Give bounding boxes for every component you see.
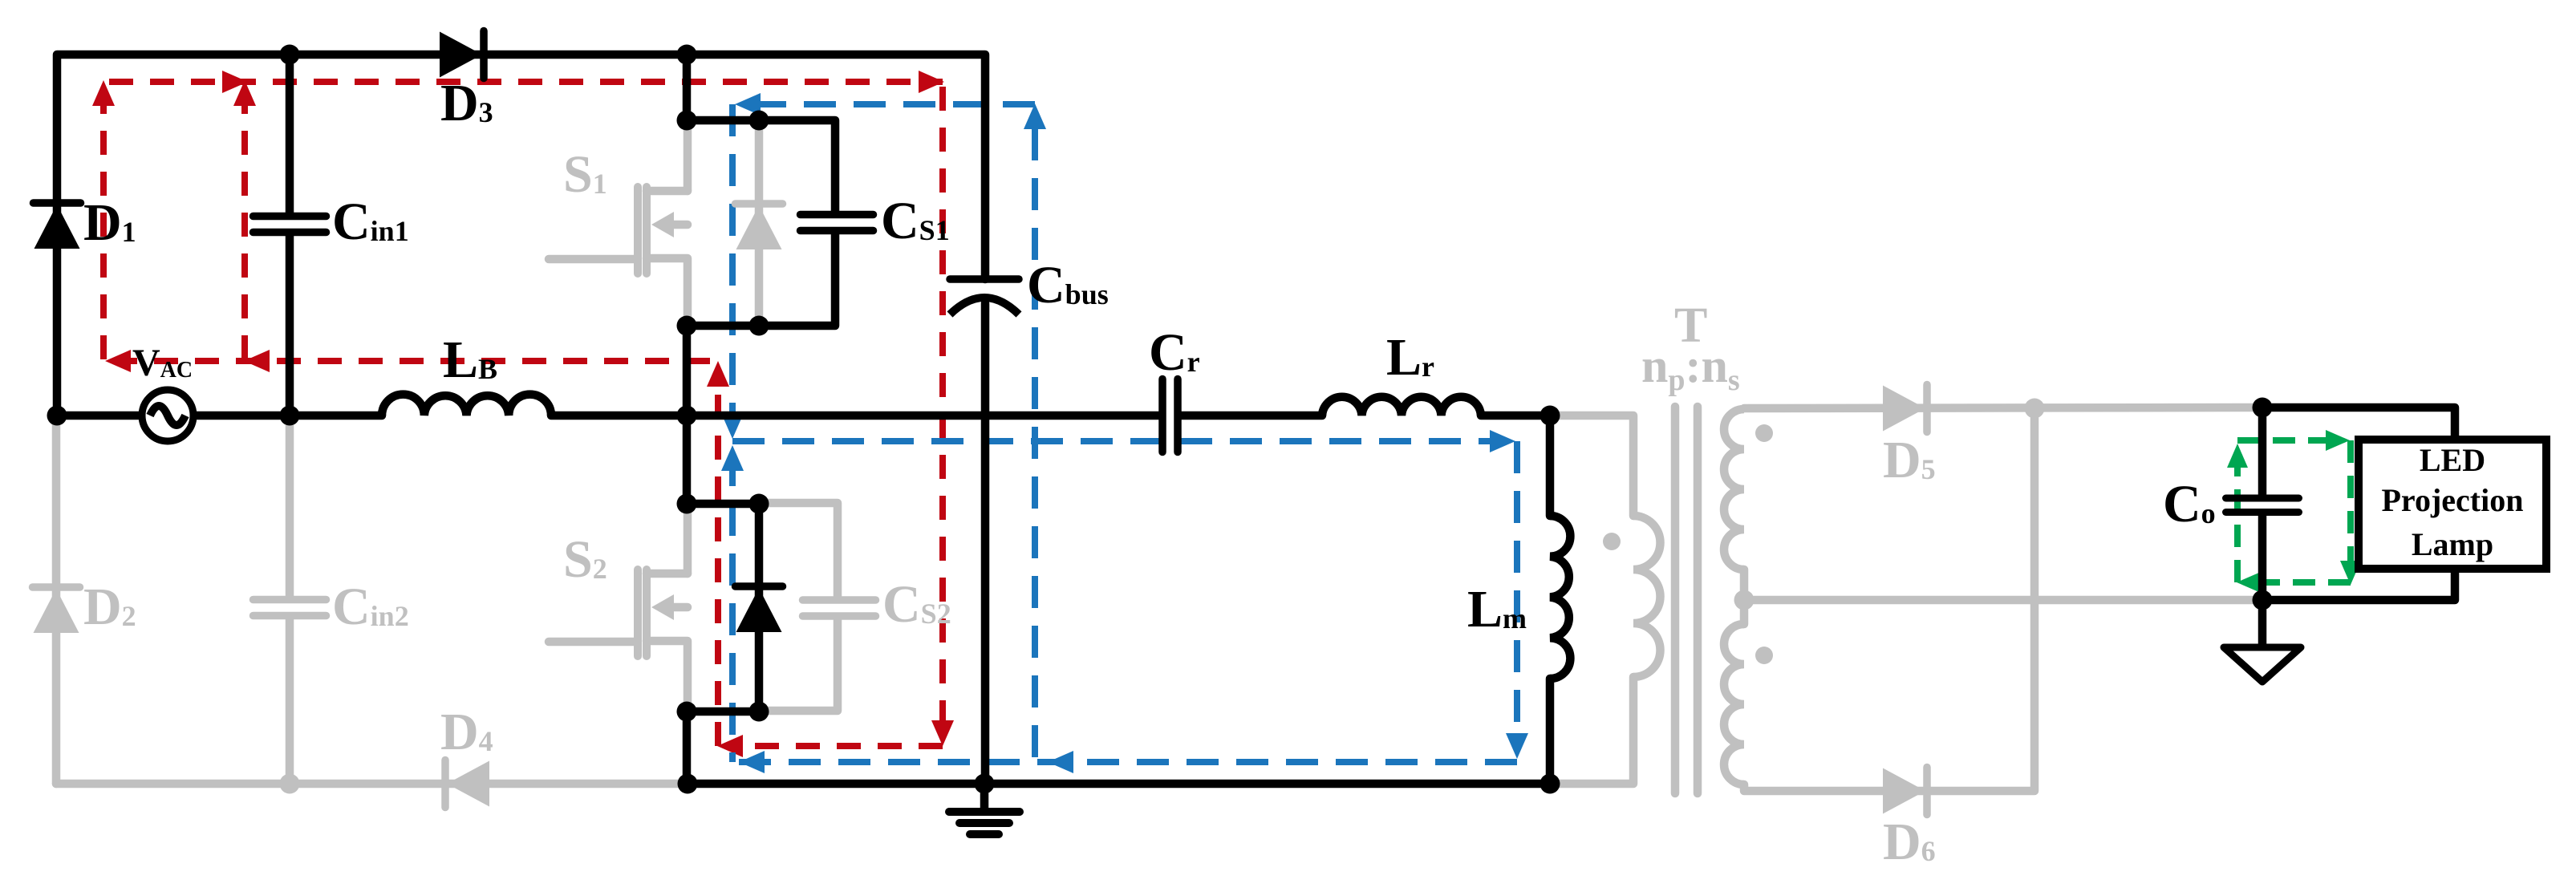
svg-text:np:ns: np:ns — [1641, 339, 1740, 397]
node top-S1 — [677, 45, 697, 65]
svg-text:S2: S2 — [563, 530, 607, 589]
wire CS1 top — [687, 120, 835, 211]
wire blue loop S2 vertical — [729, 454, 736, 762]
capacitor Cin2 — [254, 600, 327, 616]
svg-text:D5: D5 — [1883, 431, 1936, 489]
wire red loop left vertical (D1 branch) — [100, 90, 107, 359]
source VAC — [142, 390, 193, 441]
node secondary upper phase dot — [1755, 424, 1773, 442]
transistor S2 — [549, 503, 688, 708]
wire blue loop top horizontal — [744, 101, 1035, 107]
wire blue loop bottom horizontal — [732, 759, 1517, 765]
node primary phase dot — [1603, 533, 1621, 550]
LED Projection Lamp box — [2359, 440, 2546, 569]
wire S2 body-diode branch — [755, 504, 764, 712]
svg-text:D2: D2 — [83, 578, 136, 636]
svg-text:Cin1: Cin1 — [332, 193, 409, 251]
node output minus — [2253, 590, 2273, 610]
wire red loop top horizontal — [109, 79, 943, 85]
wire Cin2 branch upper — [286, 416, 294, 596]
svg-text:S1: S1 — [563, 145, 607, 204]
wire transformer primary bottom — [1550, 677, 1633, 784]
svg-text:D1: D1 — [83, 193, 136, 252]
node output plus — [2253, 398, 2273, 418]
node S2 bottom — [677, 702, 697, 722]
wire Cin1 branch upper — [286, 55, 294, 213]
node S1 bottom — [677, 316, 697, 336]
wire top rail with Cbus corner — [57, 55, 985, 420]
wire S2 bottom link — [687, 712, 759, 784]
wire red loop S2 vertical — [715, 369, 721, 746]
node rail-D1 — [47, 406, 67, 426]
wire main rail left of LB — [57, 412, 382, 420]
svg-text:D4: D4 — [440, 703, 493, 761]
diode D4 — [445, 760, 489, 808]
wire S2 top link — [687, 500, 759, 509]
inductor Lm — [1550, 516, 1570, 679]
wire Co branch upper — [2258, 407, 2267, 494]
wire green loop top horizontal — [2237, 437, 2341, 444]
svg-text:Lr: Lr — [1386, 328, 1434, 387]
node rail-Cin1 — [280, 406, 300, 426]
wire main rail LB to Cr — [551, 412, 1159, 420]
wire bottom gray rail — [56, 780, 688, 789]
svg-text:Projection: Projection — [2382, 482, 2524, 518]
wire blue loop middle horizontal — [732, 438, 1508, 444]
wire output loop — [2262, 407, 2455, 600]
wire secondary center segment — [1740, 570, 1749, 624]
wire center tap — [1744, 596, 2262, 605]
inductor transformer secondary lower winding — [1724, 624, 1744, 785]
node S1 top — [677, 111, 697, 131]
svg-text:LB: LB — [443, 330, 497, 389]
svg-text:Lm: Lm — [1467, 580, 1527, 639]
wire bottom rail black — [687, 780, 1550, 789]
wire Cbus branch lower — [981, 303, 990, 784]
wire transformer core — [1675, 407, 1698, 793]
svg-text:LED: LED — [2420, 442, 2485, 478]
node rail-Lm — [1540, 406, 1560, 426]
svg-text:Cin2: Cin2 — [332, 578, 409, 636]
wire Cin1 branch lower — [286, 236, 294, 416]
diode D1 — [34, 203, 81, 249]
wire Lm branch upper — [1546, 416, 1555, 516]
node bottom-Lm — [1540, 774, 1560, 794]
node bottom-S2 — [678, 774, 698, 794]
wire Lm branch lower — [1546, 679, 1555, 784]
wire Cin2 branch lower — [286, 619, 294, 784]
wire blue loop Lm vertical — [1514, 441, 1520, 749]
inductor LB — [382, 395, 551, 416]
wire CS1 bottom — [687, 234, 835, 326]
wire red loop bottom horizontal — [726, 743, 943, 749]
wire secondary bottom (D6) — [1744, 408, 2034, 791]
svg-text:Co: Co — [2163, 475, 2216, 533]
node rail-halfbridge — [677, 406, 697, 426]
capacitor Cin1 — [254, 217, 327, 233]
diode D5 — [1883, 385, 1927, 432]
wire red loop right vertical — [939, 87, 946, 735]
node S2 body top — [749, 494, 769, 514]
wire blue loop S1 vertical — [729, 104, 736, 429]
capacitor CS1 — [801, 215, 874, 231]
node secondary lower phase dot — [1755, 647, 1773, 664]
svg-text:CS1: CS1 — [881, 192, 950, 250]
node S1 body top — [749, 111, 769, 131]
node D5/D6 junction — [2025, 399, 2045, 419]
wire red loop middle horizontal — [104, 358, 710, 364]
wire CS2 branch bottom — [759, 619, 838, 711]
wire transformer primary top — [1550, 416, 1633, 516]
node center tap — [1734, 590, 1755, 610]
svg-text:VAC: VAC — [132, 342, 193, 384]
node ground junction — [975, 774, 995, 794]
capacitor Cbus — [950, 279, 1019, 314]
label LED Projection Lamp — [2382, 442, 2524, 562]
wire Co branch lower — [2258, 516, 2267, 600]
node top-Cin1 — [280, 45, 300, 65]
capacitor Cr — [1162, 379, 1178, 452]
wire main rail Cr to Lr — [1181, 412, 1322, 420]
diode S2 body — [736, 586, 783, 632]
transistor S1 — [549, 120, 688, 326]
wire red loop Cin1 vertical — [241, 90, 248, 359]
wire secondary top (D5) — [1744, 407, 2262, 408]
diode D6 — [1883, 768, 1927, 815]
wire D2 branch vertical — [52, 416, 61, 784]
capacitor CS2 — [803, 600, 876, 616]
inductor transformer secondary upper winding — [1724, 409, 1744, 570]
diode D3 — [440, 31, 484, 79]
wire CS2 branch top — [759, 503, 838, 596]
svg-text:Cbus: Cbus — [1027, 256, 1109, 314]
wire blue loop Cbus right vertical — [1032, 114, 1038, 757]
svg-text:Cr: Cr — [1149, 323, 1200, 382]
diode D2 — [33, 587, 80, 633]
ground output — [2224, 600, 2301, 682]
wire S1 drain bus — [683, 55, 692, 120]
wire half-bridge mid bus — [683, 326, 692, 504]
svg-text:D6: D6 — [1883, 813, 1936, 871]
capacitor Co — [2226, 498, 2299, 513]
svg-text:Lamp: Lamp — [2412, 526, 2493, 562]
node S1 body bottom — [749, 316, 769, 336]
diode S1 body — [736, 204, 783, 249]
inductor Lr — [1322, 397, 1481, 416]
inductor transformer primary winding — [1633, 516, 1661, 677]
ground main — [949, 784, 1020, 834]
wire green loop left vertical — [2234, 451, 2241, 582]
node S2 body bottom — [749, 702, 769, 722]
node Cin2-bottom — [280, 774, 300, 794]
wire green loop right vertical — [2347, 440, 2354, 576]
node S2 top — [677, 494, 697, 514]
wire Lr to Lm node — [1481, 412, 1550, 420]
wire S1 body-diode branch — [755, 120, 764, 326]
wire green loop bottom horizontal — [2244, 579, 2351, 586]
